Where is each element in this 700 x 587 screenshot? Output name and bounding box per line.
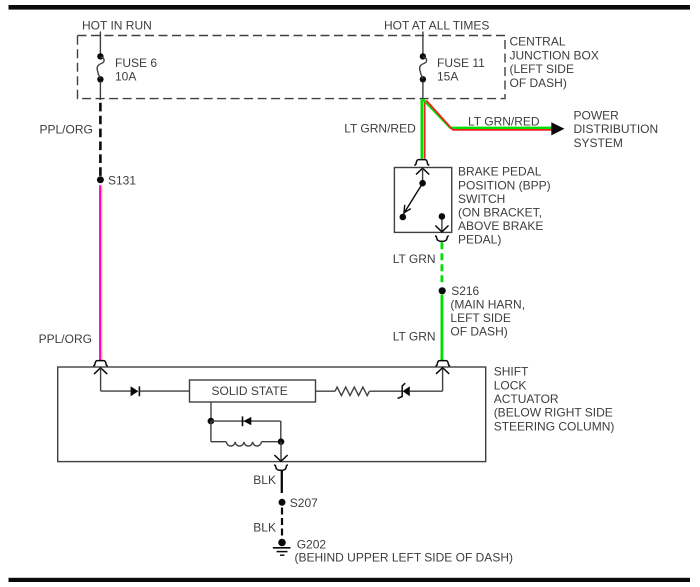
- svg-text:PEDAL): PEDAL): [458, 233, 501, 247]
- svg-text:S207: S207: [290, 496, 318, 510]
- svg-text:OF DASH): OF DASH): [510, 76, 567, 90]
- svg-text:FUSE 11: FUSE 11: [437, 56, 485, 70]
- svg-text:LEFT SIDE: LEFT SIDE: [450, 311, 510, 325]
- svg-text:SHIFT: SHIFT: [494, 365, 529, 379]
- svg-text:LT GRN: LT GRN: [393, 252, 436, 266]
- svg-text:ABOVE BRAKE: ABOVE BRAKE: [458, 219, 543, 233]
- svg-text:G202: G202: [297, 538, 327, 552]
- svg-text:10A: 10A: [115, 70, 136, 84]
- svg-text:ACTUATOR: ACTUATOR: [494, 392, 559, 406]
- svg-text:POWER: POWER: [574, 108, 620, 122]
- svg-text:HOT AT ALL TIMES: HOT AT ALL TIMES: [384, 19, 489, 33]
- svg-text:LOCK: LOCK: [494, 378, 527, 392]
- svg-text:SOLID STATE: SOLID STATE: [212, 384, 288, 398]
- svg-text:BLK: BLK: [253, 473, 276, 487]
- svg-text:(LEFT SIDE: (LEFT SIDE: [510, 62, 574, 76]
- svg-text:BLK: BLK: [253, 521, 276, 535]
- svg-text:PPL/ORG: PPL/ORG: [39, 332, 92, 346]
- svg-text:(BELOW RIGHT SIDE: (BELOW RIGHT SIDE: [494, 406, 613, 420]
- svg-text:LT GRN: LT GRN: [393, 329, 436, 343]
- svg-text:FUSE 6: FUSE 6: [115, 56, 157, 70]
- svg-text:(BEHIND UPPER LEFT SIDE OF DAS: (BEHIND UPPER LEFT SIDE OF DASH): [295, 551, 513, 565]
- svg-text:S131: S131: [108, 174, 136, 188]
- svg-text:S216: S216: [451, 284, 479, 298]
- svg-text:SWITCH: SWITCH: [458, 192, 505, 206]
- svg-text:PPL/ORG: PPL/ORG: [40, 123, 93, 137]
- svg-text:POSITION (BPP): POSITION (BPP): [458, 178, 551, 192]
- svg-text:LT GRN/RED: LT GRN/RED: [344, 121, 416, 135]
- svg-text:JUNCTION BOX: JUNCTION BOX: [510, 48, 599, 62]
- svg-text:DISTRIBUTION: DISTRIBUTION: [574, 122, 659, 136]
- svg-text:CENTRAL: CENTRAL: [510, 35, 566, 49]
- svg-text:OF DASH): OF DASH): [450, 324, 507, 338]
- svg-text:15A: 15A: [437, 70, 458, 84]
- svg-text:(MAIN HARN,: (MAIN HARN,: [450, 298, 525, 312]
- svg-text:(ON BRACKET,: (ON BRACKET,: [458, 206, 542, 220]
- svg-text:SYSTEM: SYSTEM: [574, 136, 623, 150]
- svg-text:BRAKE PEDAL: BRAKE PEDAL: [458, 165, 542, 179]
- svg-text:HOT IN RUN: HOT IN RUN: [82, 19, 152, 33]
- svg-text:STEERING COLUMN): STEERING COLUMN): [494, 419, 615, 433]
- svg-text:LT GRN/RED: LT GRN/RED: [468, 114, 540, 128]
